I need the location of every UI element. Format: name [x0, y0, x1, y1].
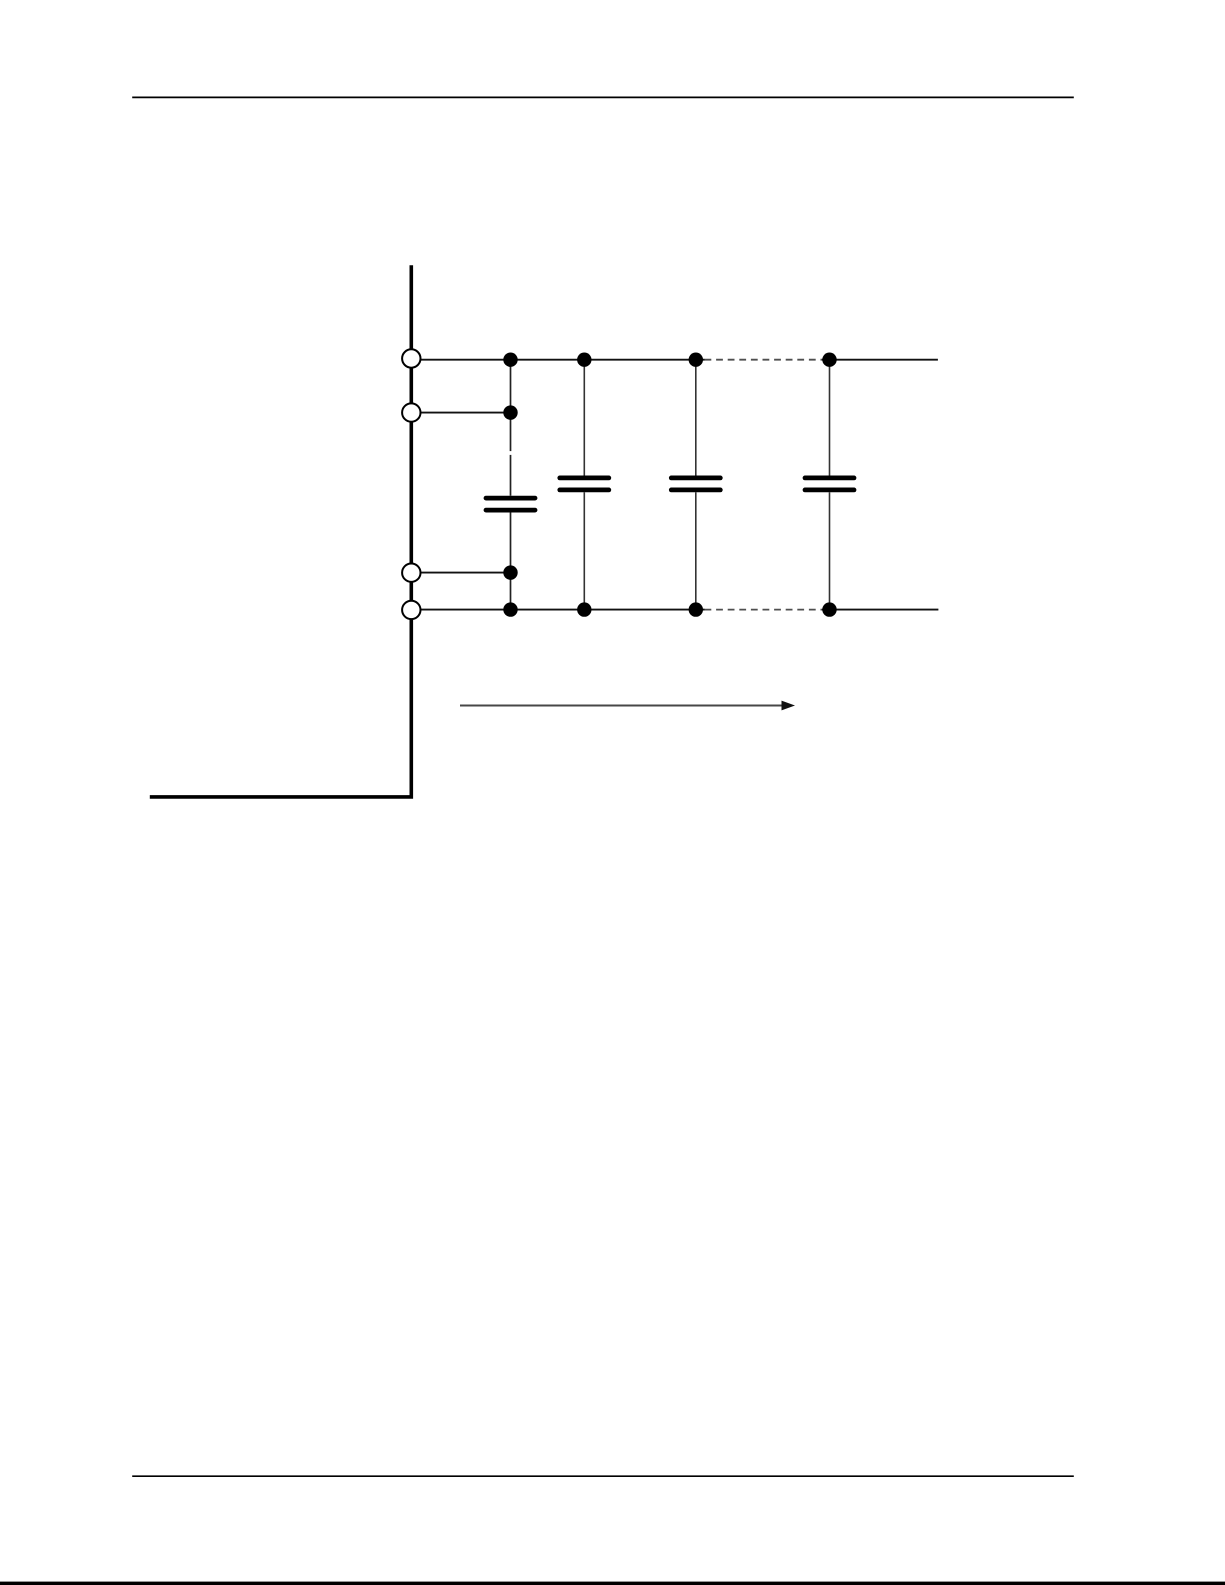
footer rule	[132, 1475, 1074, 1477]
wire top rail solid left	[421, 359, 705, 361]
junction J1 (top rail / C1 column)	[503, 353, 517, 367]
junction J2 (top rail / C2 column)	[577, 353, 591, 367]
junction J7 (bottom rail / C1 column)	[503, 602, 517, 616]
terminal T2 (open circle)	[402, 403, 420, 421]
terminal T4 (open circle)	[402, 601, 420, 619]
junction J8 (bottom rail / C2 column)	[577, 602, 591, 616]
capacitor C4	[805, 360, 854, 610]
junction J9 (bottom rail / C3 column)	[689, 602, 703, 616]
junction J4 (top rail / C4 column)	[822, 353, 836, 367]
wire terminal T3 to C1 column	[421, 572, 511, 574]
wire bottom rail solid right	[822, 609, 938, 611]
arrow (expansion direction)	[460, 701, 795, 711]
wire bottom rail solid left	[421, 609, 705, 611]
capacitor C3	[671, 360, 720, 610]
page bottom edge bar	[0, 1582, 1225, 1585]
wire bottom rail dashed segment	[705, 609, 823, 611]
wire top rail solid right	[822, 359, 938, 361]
capacitor C1	[486, 360, 535, 610]
terminal T3 (open circle)	[402, 564, 420, 582]
wire terminal T2 to C1 column	[421, 412, 511, 414]
junction J10 (bottom rail / C4 column)	[822, 602, 836, 616]
bus bar wire (thick L-shaped supply trace)	[150, 265, 412, 797]
junction J3 (top rail / C3 column)	[689, 353, 703, 367]
terminal T1 (open circle)	[402, 349, 420, 367]
header rule	[132, 96, 1074, 98]
junction J5 (T2 wire / C1 column)	[503, 405, 517, 419]
junction J6 (T3 wire / C1 column)	[503, 565, 517, 579]
wire top rail dashed segment	[705, 359, 823, 361]
capacitor C2	[560, 360, 609, 610]
